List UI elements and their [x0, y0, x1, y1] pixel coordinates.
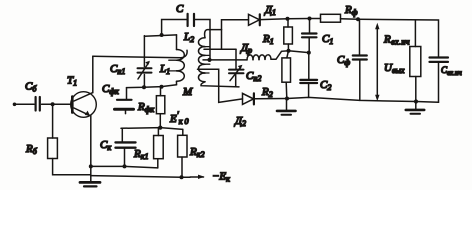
wire main rail to -Eк: [91, 176, 190, 178]
node output ground: [414, 99, 418, 103]
wire emitter line to Rк1: [91, 166, 158, 168]
transistor Q T1: [71, 92, 97, 118]
wire junction down to Rб: [52, 104, 54, 138]
svg-text:Сб: Сб: [25, 81, 37, 94]
node R1 top: [286, 17, 290, 21]
resistor Rб: [48, 138, 58, 159]
svg-text:Д1: Д1: [264, 4, 276, 17]
wire top output line: [288, 18, 321, 20]
svg-text:М: М: [182, 86, 193, 98]
capacitor Cпl (Cп1) trimmer: [138, 36, 152, 88]
capacitor C: [188, 14, 194, 26]
svg-text:Rфк: Rфк: [137, 101, 154, 114]
wire riser to Д1: [222, 20, 249, 30]
svg-text:С2: С2: [320, 79, 331, 92]
svg-text:Rк1: Rк1: [133, 148, 148, 161]
node input terminal: [13, 103, 17, 107]
node Rк2 bottom junction: [180, 175, 184, 179]
ground output: [406, 102, 424, 114]
svg-text:Свх.нч: Свх.нч: [441, 65, 462, 77]
wire Rб to rail: [53, 159, 91, 175]
wire L2 lower tap H4: [198, 69, 243, 102]
wire collector tap line to L1: [93, 50, 187, 58]
capacitor Cп2 trimmer: [229, 65, 244, 87]
resistor Rвх.нч: [410, 20, 421, 102]
resistor Rк1: [154, 128, 164, 168]
node Д2/R2 bottom: [285, 97, 289, 101]
capacitor Cфк: [115, 88, 134, 114]
svg-text:Rф: Rф: [344, 4, 358, 17]
wire riser to C: [162, 20, 187, 36]
svg-text:R2: R2: [261, 86, 273, 99]
svg-text:С1: С1: [322, 33, 333, 46]
wire emitter down: [90, 116, 92, 182]
capacitor C1: [302, 19, 317, 53]
svg-text:Uвых: Uвых: [384, 62, 405, 75]
svg-text:Сф: Сф: [337, 54, 350, 67]
wire tank top line: [144, 35, 176, 36]
wire L2 secondary tap line H2: [204, 30, 236, 50]
node tank top junction: [160, 33, 164, 37]
svg-text:Сп1: Сп1: [110, 63, 125, 76]
svg-text:Rк2: Rк2: [189, 146, 204, 159]
wire V3 to Cп2: [235, 49, 237, 69]
node base junction: [51, 102, 55, 106]
wire L2 top link: [205, 30, 222, 38]
wire junction to base: [53, 103, 72, 105]
svg-text:Ск: Ск: [100, 139, 111, 152]
svg-text:Rб: Rб: [25, 143, 38, 156]
svg-text:R1: R1: [262, 33, 274, 46]
wire E line left corner down to Cк: [121, 128, 123, 141]
node emitter junction: [89, 164, 93, 168]
node C1 top: [308, 17, 312, 21]
node Rфк top: [160, 85, 164, 89]
node R1R2 mid: [287, 49, 291, 53]
svg-text:Сфк: Сфк: [102, 83, 119, 96]
node Cп1 bottom: [142, 85, 146, 89]
svg-text:Т1: Т1: [67, 75, 77, 88]
wire Д2 to ground node: [255, 98, 287, 100]
capacitor Cф: [353, 19, 367, 100]
svg-text:−Ек: −Ек: [212, 171, 230, 184]
ground R2 node: [277, 99, 296, 115]
resistor Rк2: [178, 129, 187, 177]
capacitor Свх.нч: [430, 58, 449, 103]
node E'к0 junction: [158, 126, 162, 130]
ground: [80, 182, 100, 186]
capacitor Cк: [116, 142, 136, 166]
arrow Uвых double-headed: [375, 23, 379, 101]
svg-text:Rвх.нч: Rвх.нч: [383, 34, 410, 47]
wire C to center-tap drop: [195, 20, 210, 60]
node C1C2 mid: [307, 51, 311, 55]
wire E'к0 line: [121, 128, 183, 130]
wire bottom output rail: [287, 97, 439, 102]
capacitor C2: [300, 53, 317, 98]
wire L2 bottom H5: [201, 82, 239, 87]
svg-text:С: С: [176, 3, 184, 15]
svg-text:Сп2: Сп2: [246, 70, 261, 83]
wire Д1 to R1 node: [261, 18, 288, 21]
svg-text:Др: Др: [240, 42, 252, 55]
node Cк bottom: [123, 164, 127, 168]
inductor L1: [169, 35, 184, 85]
wire -Eк arrow: [190, 175, 205, 179]
inductor L2: [198, 38, 209, 82]
svg-text:Е′к 0: Е′к 0: [169, 110, 188, 126]
node Cф top: [356, 17, 360, 21]
wire Rф to right: [341, 19, 439, 57]
wire tank bottom rail: [127, 85, 177, 88]
wire input to Cб: [15, 103, 35, 105]
wire Cб to base node: [42, 103, 53, 105]
inductor Др choke: [247, 55, 271, 60]
wire center tap line: [203, 59, 247, 61]
resistor R1: [284, 19, 293, 51]
node center tap: [207, 58, 211, 62]
svg-text:L2: L2: [183, 31, 194, 44]
diode Д2: [243, 93, 254, 104]
svg-text:Д2: Д2: [234, 115, 246, 128]
wire choke to midrail: [271, 51, 309, 60]
capacitor Cб: [36, 97, 40, 111]
wire collector riser: [92, 56, 94, 92]
resistor Rфк: [156, 87, 164, 127]
resistor Rф: [321, 14, 341, 22]
diode Д1: [249, 14, 260, 25]
svg-text:L1: L1: [159, 63, 170, 76]
resistor R2: [282, 51, 291, 99]
